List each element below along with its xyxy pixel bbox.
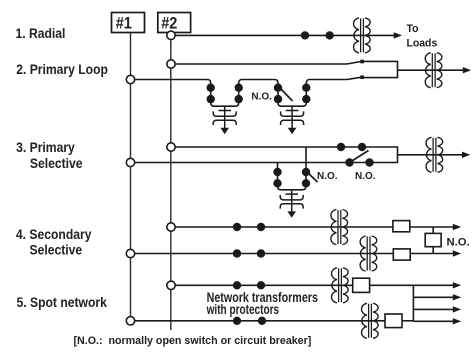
wire spot top from feeder #2 [174,284,353,286]
svg-text:N.O.: N.O. [355,171,376,182]
switch dots ss top [233,223,241,231]
transformer ss bottom [360,236,377,271]
wire spot top to bus [370,284,414,286]
ps right junction bar [397,146,399,163]
switch dots ps bottom line [345,158,353,166]
svg-text:Selective: Selective [30,242,83,258]
protector box spot bottom [385,314,402,328]
transformer ss top [331,210,348,245]
ps tap branch B from feeder #2 line [292,147,306,190]
terminal square loop box bottom [360,75,364,79]
svg-text:1. Radial: 1. Radial [16,25,66,41]
switch blade loop bottom into box [347,77,362,79]
node circle on feeder #2 (spot) [167,281,175,289]
switch dots spot bottom [233,317,241,325]
open switch blade ps bottom line [351,151,369,162]
wire spot bottom from feeder #1 [135,320,385,322]
loop tie box [362,61,398,77]
wire ss bottom from feeder #1 [135,253,394,255]
svg-text:3. Primary: 3. Primary [16,139,76,155]
breaker box ss top [393,221,410,232]
ss tie vertical lower [432,247,434,254]
transformer ps output [426,137,443,172]
switch blade loop top into box [347,61,362,64]
svg-text:4. Secondary: 4. Secondary [16,226,92,242]
svg-text:Selective: Selective [30,155,83,171]
node circle on feeder #2 (ss) [167,223,175,231]
arrowhead ss bottom [453,250,461,256]
svg-text:N.O.: N.O. [447,237,470,249]
wire radial line [174,34,394,36]
node circle on feeder #1 (ps) [126,158,134,166]
ps tap branch A from feeder #1 line [278,163,292,190]
svg-text:with protectors: with protectors [206,301,280,317]
svg-text:#2: #2 [161,15,177,33]
wire ss bottom output [410,253,454,255]
wire loop output [398,69,464,71]
transformer loop tap1 [213,106,236,134]
svg-text:To: To [407,23,419,35]
node circle on feeder #1 (loop) [126,75,134,83]
node circle on feeder #1 (spot) [126,317,134,325]
switch dot radial A [301,31,309,39]
transformer loop tap2 [281,106,304,134]
switch dot radial B [325,31,333,39]
arrowhead ps output [462,152,470,158]
feeder #1 vertical line [130,33,132,317]
transformer spot top [332,268,349,303]
svg-text:Loads: Loads [407,37,438,49]
transformer ps tap [280,190,303,218]
ss tie vertical upper [432,227,434,233]
open switch blade loop tap2 [281,89,293,102]
wire spot bottom to bus [402,320,413,322]
wire ss top output [410,226,454,228]
bus box #1 [112,13,145,33]
switch dots ps tap [273,168,281,176]
breaker box ss bottom [393,249,410,260]
arrowhead ss top [453,224,461,230]
wire ps top from feeder #2 [174,146,398,148]
wire ps bottom from feeder #1 [135,162,398,164]
switch dots ps top line [337,143,345,151]
open switch blade ps tap [308,173,318,182]
spot network bus [412,285,414,321]
ss tie breaker box [425,233,441,246]
svg-text:#1: #1 [116,15,132,33]
bus box #2 [158,13,191,33]
arrowhead loop output [463,67,471,73]
protector box spot top [353,278,370,292]
switch dots loop tap1 [207,84,215,92]
node circle on feeder #2 (loop) [167,60,175,68]
terminal square loop box top [360,60,364,64]
transformer radial [354,18,371,53]
wire loop top from feeder #2 [174,63,347,65]
arrowhead radial to loads [394,32,402,38]
transformer spot bottom [362,303,379,338]
node circle on feeder #1 (ss) [126,249,134,257]
node circle on feeder #2 (radial) [167,31,175,39]
spot load arrow 4 [413,320,454,322]
svg-text:N.O.: N.O. [317,171,338,182]
svg-text:2. Primary Loop: 2. Primary Loop [16,62,108,78]
feeder #2 vertical line [170,33,172,331]
wire ss top from feeder #2 [174,226,393,228]
spot load arrow 3 [413,308,454,310]
svg-text:N.O.: N.O. [251,91,272,102]
spot load arrow 1 [413,284,454,286]
switch dots ss bottom [233,249,241,257]
node circle on feeder #2 (ps) [167,143,175,151]
transformer loop output [425,53,442,88]
wire ps output [398,154,463,156]
switch dots loop tap2 [274,84,282,92]
spot load arrow 2 [413,296,454,298]
svg-text:[N.O.: normally open switch o: [N.O.: normally open switch or circuit b… [74,335,312,347]
svg-text:5. Spot network: 5. Spot network [17,294,108,310]
wire loop bottom with tap descents [135,80,347,107]
switch dots spot top [233,281,241,289]
